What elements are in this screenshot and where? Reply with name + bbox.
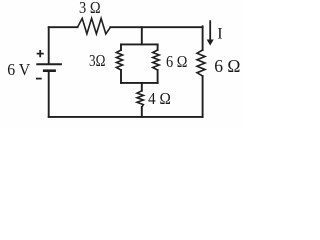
resistor R_bottom 4-ohm vertical zigzag [137,91,143,107]
resistor R_mid_right 6-ohm vertical zigzag [153,50,160,70]
svg-text:I: I [217,25,222,42]
svg-text:6 V: 6 V [7,60,31,79]
wire right branch top stub [157,44,159,50]
wire left vertical upper segment [48,27,50,63]
wire below 4-ohm resistor [141,107,143,117]
wire left vertical lower segment [48,72,50,117]
svg-text:3 Ω: 3 Ω [79,0,101,17]
battery V1 long plate [36,63,62,65]
svg-text:6 Ω: 6 Ω [214,56,240,76]
resistor R_mid_left 3-ohm vertical zigzag [116,50,122,70]
wire top-left horizontal segment [49,26,78,28]
svg-text:6 Ω: 6 Ω [166,52,187,71]
wire lower tap stub [141,83,143,91]
wire left branch bottom stub [120,70,122,83]
wire top-right horizontal segment [110,26,202,28]
current arrow I [209,20,211,40]
battery minus sign [36,78,42,80]
svg-text:3Ω: 3Ω [89,51,105,70]
battery V1 short plate [43,69,56,72]
wire right vertical lower segment [202,76,204,117]
wire parallel-box top bar [121,43,158,45]
wire middle tap from top wire [141,27,143,44]
resistor R_top 3-ohm zigzag [78,18,111,34]
wire parallel-box bottom bar [121,82,158,84]
resistor R_right 6-ohm vertical zigzag [197,50,205,76]
svg-text:4 Ω: 4 Ω [148,89,171,108]
battery plus sign [37,50,44,57]
wire bottom horizontal [49,116,203,118]
wire right vertical upper stub [202,26,204,50]
wire left branch top stub [120,44,122,50]
wire right branch bottom stub [157,70,159,83]
